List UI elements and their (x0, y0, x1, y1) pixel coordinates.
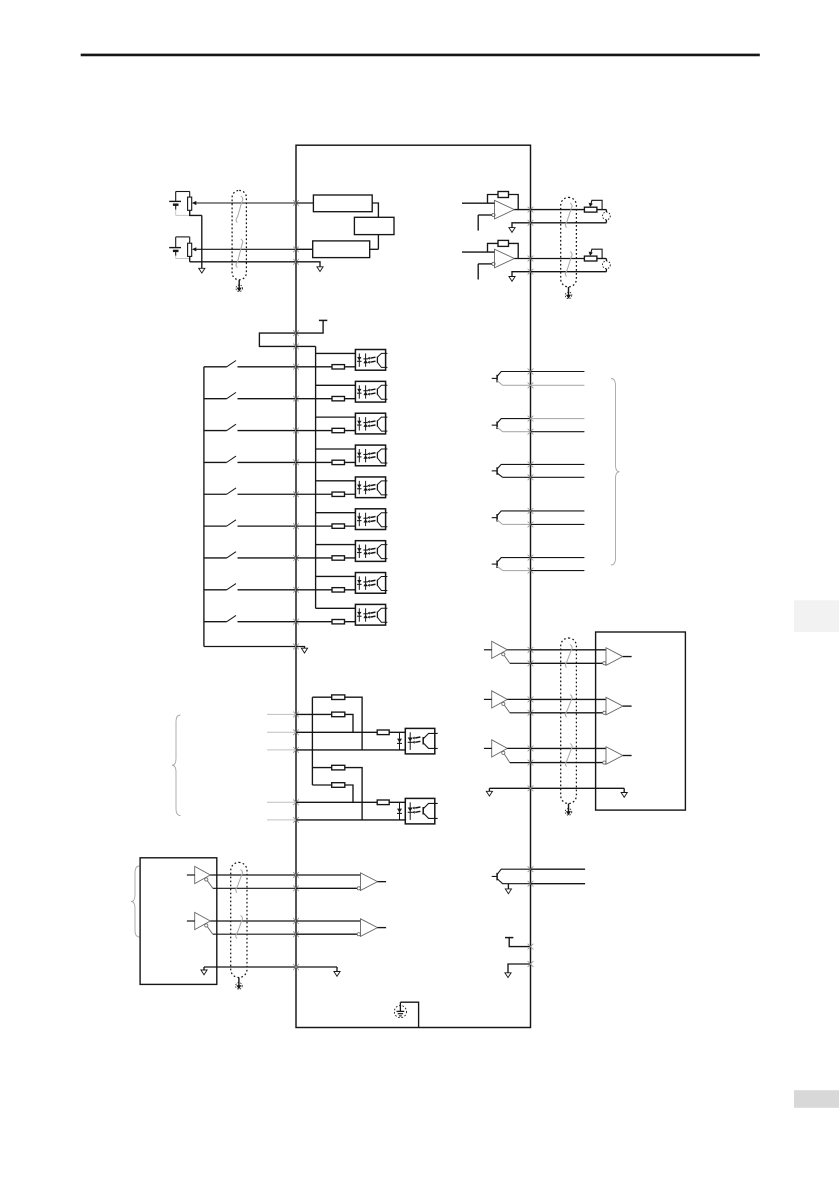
optocoupler OCP1 (pulse) (405, 728, 435, 754)
wire meter M2 return (605, 269, 607, 272)
wire pulse input stub (267, 801, 296, 803)
line driver ED2 (external) (195, 912, 211, 929)
potentiometer RP1 (188, 197, 192, 210)
line receiver REC2 (606, 697, 623, 715)
switch S3 (DI3) (204, 430, 227, 432)
battery B1 (analog input source 1) (169, 200, 181, 202)
wire DO1+ external (531, 371, 585, 373)
switch S7 (DI7) (204, 557, 227, 559)
wire battery B2 top to potentiometer RP2 (176, 236, 190, 238)
op-amp U1 inverting bubble (492, 213, 495, 216)
pin DO4- (528, 522, 534, 528)
optocoupler OC2 (DI2) (355, 381, 385, 402)
wire pulse group1 top rail (312, 696, 331, 698)
transistor Q2 (DO2) (492, 424, 497, 426)
resistor RD4 (332, 460, 345, 464)
transistor Q1 (DO1) (492, 377, 497, 379)
pin DO4+ (528, 508, 534, 514)
resistor RP2b (332, 783, 345, 788)
wire R2 to R3 (377, 235, 379, 250)
wire U1 output to pin (514, 209, 530, 211)
wire AGND stub inside (296, 262, 320, 267)
wire COM- inside stub (296, 647, 305, 649)
wire AI1 inside block (296, 202, 313, 204)
wire PULSE+ to resistor RP1b (296, 713, 332, 715)
wire DO4+ external (531, 510, 585, 512)
DI opto supply bus (315, 346, 317, 608)
pin pulse input (293, 817, 299, 823)
wire DI8 opto anode rail (316, 575, 366, 577)
brace (DO group) (611, 379, 620, 566)
wire ED1 output (210, 874, 296, 876)
external device box (encoder output receiver) (596, 632, 686, 810)
pin GND (AO1) (528, 220, 534, 226)
wire RP1c to opto (389, 731, 410, 733)
wire RP2 bottom to AGND wire (189, 256, 191, 261)
wire RD2 to optocoupler (345, 398, 366, 400)
wire AO1 to load (531, 209, 585, 211)
pin DO3- (528, 474, 534, 480)
page tab upper (light gray) (794, 600, 839, 632)
twisted pair symbol enc ch2 (565, 695, 572, 718)
wire DI5 to resistor (296, 493, 332, 495)
pin AO1 (528, 207, 534, 213)
pin encoder in 1+ (293, 872, 299, 878)
switch S1 (DI1) (204, 366, 227, 368)
line driver D1 (encoder output 1) (492, 641, 508, 658)
wire analog common trunk (201, 215, 203, 268)
wire DO4- external (531, 523, 585, 525)
wire DI6 opto anode rail (316, 512, 366, 514)
ground arrow AO1 (509, 228, 515, 233)
wire RD1 to optocoupler (345, 366, 366, 368)
pin GND (AO2) (528, 269, 534, 275)
pin encoder out 1+ (528, 647, 534, 653)
wire encoder 2- to receiver (531, 712, 603, 714)
brace (external encoder box) (131, 866, 140, 937)
resistor RD5 (332, 492, 345, 496)
wire DI2 to resistor (296, 398, 332, 400)
page tab lower (gray) (794, 1090, 839, 1108)
wire encoder in 1+ internal (296, 874, 361, 876)
wire op-amp U1 + input (462, 202, 495, 204)
switch S6 (DI6) (204, 525, 227, 527)
resistor RP1b (332, 712, 345, 717)
pin GND (bottom) (528, 961, 534, 967)
ground arrow Q6 (505, 889, 511, 894)
wire driver D2 output (507, 698, 530, 700)
wire AGND hook AO1 (512, 223, 531, 228)
wire pulse input stub (267, 731, 296, 733)
potentiometer RP2 (188, 243, 192, 256)
ground arrow enc-in GND left (203, 967, 205, 970)
wiper arrow RL2 (591, 249, 603, 258)
ground arrow GND pin (505, 973, 511, 978)
wire DO3+ external (531, 463, 585, 465)
switch S5 (DI5) (204, 493, 227, 495)
wire DI4 opto anode rail (316, 448, 366, 450)
wire RD7 to optocoupler (345, 557, 366, 559)
twisted pair symbol enc-in ch1 (236, 870, 243, 893)
wire encoder in 1- internal (296, 887, 357, 889)
pin DO3+ (528, 462, 534, 468)
twisted pair symbol AI ch2 (236, 239, 243, 268)
clamp diode VD2 (399, 802, 401, 820)
wire ED1 inverted output (207, 881, 212, 889)
wiper arrow into RP2 (192, 247, 196, 251)
resistor RP1c (series) (377, 730, 389, 735)
wire R1 to R2 (372, 203, 378, 217)
wire DO3- external (531, 476, 585, 478)
wire encoder 3- to receiver (531, 762, 603, 764)
wire GND pin hook (508, 964, 531, 973)
wire PE to block bottom (400, 1002, 418, 1027)
switch S9 (DI9) (204, 621, 227, 623)
receiver ER2 bubble (357, 933, 360, 936)
op-amp U1 (analog monitor output 1) (495, 200, 515, 219)
wire DO5+ external (531, 557, 585, 559)
pin encoder in 1- (293, 885, 299, 891)
wire DI8 to resistor (296, 589, 332, 591)
wire encoder in 2+ internal (296, 920, 361, 922)
phototransistor OCP2 (422, 807, 424, 815)
wire RD4 to optocoupler (345, 461, 366, 463)
pin encoder out 2+ (528, 697, 534, 703)
pin DI3 (293, 428, 299, 434)
meter M2 (dashed circle) (603, 261, 611, 269)
pin DI6 (293, 523, 299, 529)
resistor RD8 (332, 588, 345, 592)
switch S2 (DI2) (204, 398, 227, 400)
wire RP2b drop to SIGN+ (345, 785, 353, 802)
wire AI2 inside block (296, 248, 313, 250)
wire sign group rail (24V) (312, 767, 331, 769)
wire COM- to block (204, 646, 296, 648)
header rule (81, 54, 760, 57)
wire driver D1 inverted output (504, 656, 509, 664)
wire encoder 3+ to receiver (531, 747, 607, 749)
wire DO5- external (531, 570, 585, 572)
wire driver D3 output (507, 747, 530, 749)
wire RL2 to meter (597, 258, 607, 260)
wire RP1 bottom to common (190, 210, 202, 215)
pin DO5- (528, 568, 534, 574)
optocoupler OC6 (DI6) (355, 509, 385, 530)
ground arrow COM- inside (301, 648, 307, 653)
wire DI9 to resistor (296, 621, 332, 623)
wire battery B2 bottom link (faint) (176, 258, 190, 260)
DI switch common bus (203, 367, 205, 647)
pin GND (analog input) (293, 259, 299, 265)
driver D1 inverted bubble (502, 653, 505, 656)
wire +24V to COM jumper (U-link) (259, 333, 296, 346)
wire pulse input stub (267, 713, 296, 715)
wire RD5 to optocoupler (345, 493, 366, 495)
optocoupler OC5 (DI5) (355, 477, 385, 498)
internal +5V rail symbol (505, 937, 513, 939)
resistor RD6 (332, 524, 345, 528)
pin encoder out 3+ (528, 746, 534, 752)
pin DI1 (293, 364, 299, 370)
shield drain to earth (AO cable) (568, 287, 570, 297)
wire U2 output to pin (514, 258, 530, 260)
wire DO6- external (531, 883, 586, 885)
wire DO2+ external (531, 418, 585, 420)
pin DO6- (528, 881, 534, 887)
op-amp U2 inverting bubble (492, 262, 495, 265)
wire DI9 opto anode rail (316, 607, 366, 609)
wire DI5 opto anode rail (316, 480, 366, 482)
wire encoder 1+ to receiver (531, 649, 607, 651)
wire +24V internal to rail (296, 320, 323, 333)
wire DI3 to resistor (296, 430, 332, 432)
meter M1 (dashed circle) (603, 212, 611, 220)
wire receiver REC2 output (623, 705, 632, 707)
wire RP2c to opto (389, 801, 410, 803)
transistor Q6 (DO6) (492, 875, 497, 877)
twisted pair symbol AI ch1 (236, 196, 243, 223)
pin DI5 (293, 491, 299, 497)
wiper arrow into RP1 (192, 201, 196, 205)
pin DI2 (293, 396, 299, 402)
optocoupler OC3 (DI3) (355, 413, 385, 434)
wire RD8 to optocoupler (345, 589, 366, 591)
shield drain to earth (encoder cable) (568, 804, 570, 814)
wire op-amp U2 - input (478, 263, 492, 265)
shield drain to earth (AI cable) (238, 280, 240, 290)
wire DI1 to resistor (296, 366, 332, 368)
pin GND (encoder in) (293, 964, 299, 970)
wire SIGN 24V lower rail (312, 784, 331, 786)
resistor RP1a (pulse 24V limiting) (332, 695, 345, 700)
wire DI6 to resistor (296, 525, 332, 527)
shield (encoder input cable) (231, 862, 247, 977)
wire ED2 output (210, 920, 296, 922)
resistor RD9 (332, 620, 345, 624)
shield (analog input cable) (232, 190, 246, 279)
phototransistor OCP1 (422, 737, 424, 745)
ground arrow analog source common (199, 268, 205, 273)
pin pulse input (293, 799, 299, 805)
wire RP1a to drop (345, 697, 362, 750)
wire COM+ to DI bus (296, 345, 316, 347)
pin DI9 (293, 619, 299, 625)
wire RP1b drop to PULSE- (345, 714, 353, 732)
clamp diode VD1 (399, 732, 401, 750)
line driver D3 (encoder output 3) (492, 740, 508, 757)
pin +5V (528, 944, 534, 950)
line receiver REC3 (606, 747, 623, 765)
wire driver D2 inverted output (504, 705, 509, 713)
wire SIGN return rail (296, 819, 410, 821)
resistor RD3 (332, 428, 345, 432)
wire SIGN+ to series resistor (296, 801, 377, 803)
wire pulse input stub (267, 819, 296, 821)
wire driver D1 output (507, 649, 530, 651)
shield drain to earth (encoder input cable) (238, 978, 240, 988)
wire DI4 to resistor (296, 461, 332, 463)
pin +24V (293, 330, 299, 336)
switch S8 (DI8) (204, 589, 227, 591)
wire encoder in 2- internal (296, 933, 357, 935)
pin DO6+ (528, 866, 534, 872)
pin AI2 (293, 246, 299, 252)
driver D3 inverted bubble (502, 751, 505, 754)
wire DI7 to resistor (296, 557, 332, 559)
optocoupler OC4 (DI4) (355, 445, 385, 466)
wire RD3 to optocoupler (345, 430, 366, 432)
wire op-amp U1 - input (478, 214, 492, 216)
wire AGND to block (190, 261, 296, 263)
wire receiver ER1 output (378, 881, 387, 883)
twisted pair symbol enc ch3 (565, 744, 572, 767)
wire analog input 2 to block (196, 248, 296, 250)
wire encoder-in GND (204, 966, 337, 968)
load potentiometer RL2 (584, 256, 597, 261)
wire pulse input stub (267, 749, 296, 751)
wire feedback loop U1 (488, 195, 499, 204)
wire encoder 2+ to receiver (531, 698, 607, 700)
wire AO2 to load (531, 258, 585, 260)
driver ED2 inverted bubble (205, 924, 208, 927)
pin encoder out 3- (528, 760, 534, 766)
receiver REC2 bubble (603, 711, 606, 714)
wire op-amp U2 + input (462, 251, 495, 253)
pin GND (encoder out) (528, 785, 534, 791)
optocoupler OC8 (DI8) (355, 573, 385, 594)
servo drive main block outline (296, 145, 531, 1027)
pin AO2 (528, 256, 534, 262)
wire Q6 emitter ground drop (507, 884, 509, 889)
wire RD9 to optocoupler (345, 621, 366, 623)
receiver REC1 bubble (603, 662, 606, 665)
pin DO1- (528, 382, 534, 388)
pin COM- (293, 644, 299, 650)
op-amp U2 (analog monitor output 2) (495, 249, 515, 268)
receiver ER1 bubble (357, 887, 360, 890)
resistor R1 (AI1 input) (313, 195, 372, 212)
feedback resistor Rf2 (498, 240, 509, 246)
pin encoder in 2- (293, 931, 299, 937)
pin DO5+ (528, 555, 534, 561)
ground arrow AGND inside (317, 267, 323, 272)
wire battery B1 top to potentiometer RP1 (176, 191, 190, 193)
load potentiometer RL1 (584, 207, 597, 212)
pin encoder out 2- (528, 710, 534, 716)
pin DO2- (528, 429, 534, 435)
shield (encoder output cable) (561, 638, 577, 804)
wire enc-in GND inside drop (336, 967, 338, 972)
wire +5V pin hook (509, 938, 530, 947)
pin DI7 (293, 555, 299, 561)
pin DO1+ (528, 369, 534, 375)
wire PULSE return rail (296, 749, 410, 751)
resistor RD2 (332, 396, 345, 400)
pin encoder in 2+ (293, 918, 299, 924)
line receiver REC1 (606, 648, 623, 666)
wire RD6 to optocoupler (345, 525, 366, 527)
wire receiver REC1 output (623, 656, 632, 658)
external controller box (encoder signal source) (140, 858, 217, 985)
pin DI4 (293, 459, 299, 465)
transistor Q3 (DO3) (492, 470, 497, 472)
wire DO6+ external (531, 868, 586, 870)
wire feedback loop U2 (488, 243, 499, 252)
resistor R2 (AI middle) (354, 217, 394, 234)
transistor Q4 (DO4) (492, 517, 497, 519)
resistor RP2a (332, 765, 345, 770)
pin encoder out 1- (528, 660, 534, 666)
protective earth symbol PE (394, 1006, 406, 1018)
wire DI2 opto anode rail (316, 384, 366, 386)
ground arrow AO2 (509, 277, 515, 282)
twisted pair symbol AO ch2 (565, 252, 572, 277)
twisted pair symbol enc-in ch2 (236, 916, 243, 939)
wire battery B1 bottom link (faint) (176, 214, 190, 216)
brace (pulse input group) (172, 715, 181, 816)
line receiver ER2 (361, 919, 378, 937)
wire analog input 1 to block (196, 202, 296, 204)
wire DO2- external (531, 431, 585, 433)
line driver ED1 (external) (195, 866, 211, 883)
pin AI1 (293, 200, 299, 206)
line driver D2 (encoder output 2) (492, 691, 508, 708)
wire DI1 opto anode rail (316, 352, 366, 354)
shield (analog output cable) (561, 197, 577, 287)
wire receiver ER2 output (378, 927, 387, 929)
internal 24V rail symbol (319, 319, 327, 321)
pin pulse input (293, 712, 299, 718)
wire AGND hook AO2 (512, 272, 531, 277)
wiper arrow RL1 (591, 200, 603, 209)
optocoupler OC9 (DI9) (355, 604, 385, 625)
optocoupler OC1 (DI1) (355, 350, 385, 371)
pin DI8 (293, 587, 299, 593)
twisted pair symbol AO ch1 (565, 203, 572, 228)
pin pulse input (293, 729, 299, 735)
wire PULSE- to series resistor (296, 731, 377, 733)
wire meter M1 return (605, 220, 607, 223)
optocoupler OCP2 (sign) (405, 798, 435, 824)
wire encoder GND (489, 787, 624, 789)
resistor RP2c (series) (377, 800, 389, 805)
wire encoder 1- to receiver (531, 662, 603, 664)
twisted pair symbol enc ch1 (565, 645, 572, 668)
pin DO2+ (528, 416, 534, 422)
wire RP2a to drop (345, 768, 362, 820)
optocoupler OC7 (DI7) (355, 541, 385, 562)
driver ED1 inverted bubble (205, 878, 208, 881)
wire ED2 inverted output (207, 927, 212, 934)
ground arrow encoder GND left (488, 788, 490, 791)
wire DI7 opto anode rail (316, 544, 366, 546)
wire driver D3 inverted output (504, 754, 509, 762)
resistor R3 (AI2 input) (313, 241, 370, 258)
receiver REC3 bubble (603, 761, 606, 764)
resistor RD7 (332, 556, 345, 560)
pin COM+ (293, 344, 299, 350)
switch S4 (DI4) (204, 461, 227, 463)
wire pulse 24V vertical bus (311, 697, 313, 785)
pin pulse input (293, 747, 299, 753)
ground arrow encoder GND right (623, 788, 625, 792)
feedback resistor Rf1 (498, 192, 509, 198)
wire DI3 opto anode rail (316, 416, 366, 418)
wire receiver REC3 output (623, 755, 632, 757)
transistor Q5 (DO5) (492, 563, 497, 565)
wire RL1 to meter (597, 209, 607, 211)
resistor RD1 (332, 365, 345, 369)
